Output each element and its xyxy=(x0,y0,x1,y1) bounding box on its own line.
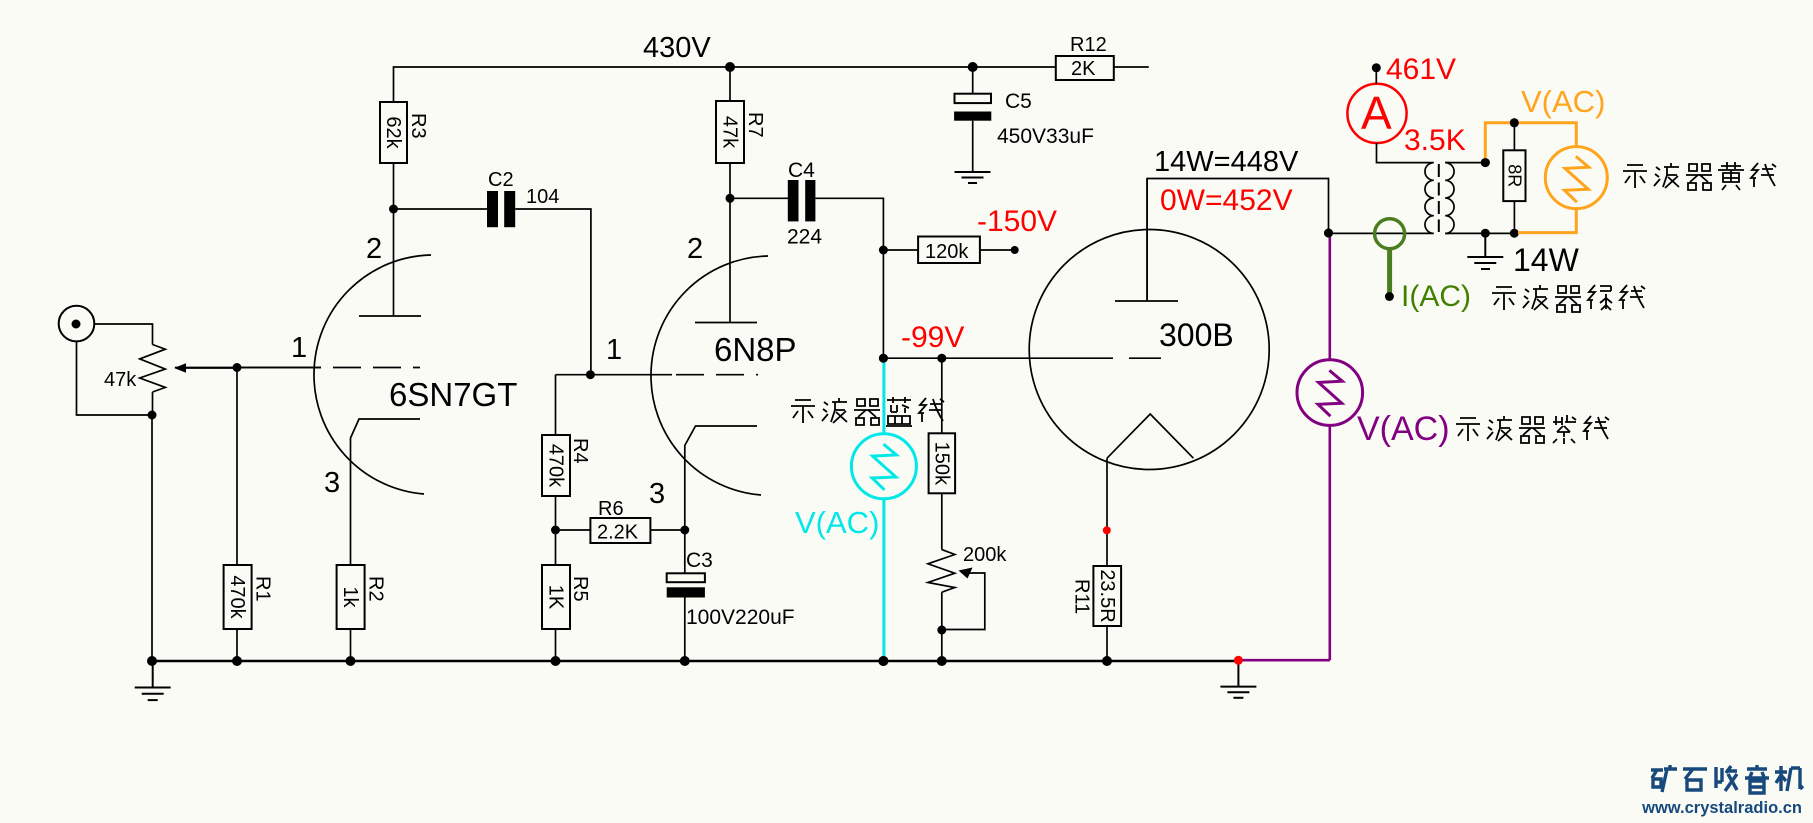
wire R7 bottom to plate node 6N8P xyxy=(729,163,731,198)
node rail cyan (over) xyxy=(878,656,888,666)
wire terminal to ammeter xyxy=(1375,68,1377,84)
node rail R2 xyxy=(346,656,356,666)
wire orange loop top xyxy=(1485,123,1576,163)
potentiometer 200k xyxy=(928,544,1007,592)
node red cathode xyxy=(1103,526,1111,534)
svg-text:V(AC): V(AC) xyxy=(795,505,879,540)
node R4 R5 R6 xyxy=(551,526,560,535)
svg-text:200k: 200k xyxy=(963,544,1007,566)
wire pot bottom to node xyxy=(152,392,154,415)
node -150V terminal xyxy=(1011,246,1019,254)
node -99V cyan tap xyxy=(879,354,888,363)
oscilloscope purple circle xyxy=(1297,360,1363,426)
wire node to C4 xyxy=(730,197,788,199)
node rail right end red xyxy=(1234,656,1243,665)
wire rail to R12 right xyxy=(1114,66,1149,68)
wire R1 to rail xyxy=(236,629,238,661)
wire purple to rail xyxy=(1238,659,1329,662)
svg-text:1k: 1k xyxy=(339,586,361,608)
6N8P plate xyxy=(695,198,757,322)
svg-text:1: 1 xyxy=(606,334,622,366)
svg-text:62k: 62k xyxy=(382,116,404,149)
svg-text:R5: R5 xyxy=(569,576,591,602)
cyan oscilloscope branch xyxy=(851,358,916,661)
node grid junction R1 xyxy=(233,363,242,372)
node plate 6N8P xyxy=(726,194,735,203)
wire cyan top xyxy=(882,358,885,434)
svg-text:100V220uF: 100V220uF xyxy=(686,606,795,629)
wire node down to rail xyxy=(151,415,153,661)
wire cyan bottom xyxy=(882,499,885,661)
wire junction down to R1 xyxy=(236,368,238,566)
svg-text:14W=448V: 14W=448V xyxy=(1154,146,1299,178)
bottom rail xyxy=(152,660,1238,663)
ammeter A1 xyxy=(1347,84,1406,143)
label oscilloscope purple line chinese xyxy=(1456,415,1609,444)
capacitor C3 xyxy=(667,530,795,661)
wire R5 to rail xyxy=(555,629,557,661)
wire 120k to -150V terminal xyxy=(980,249,1015,251)
wire R6 left xyxy=(556,529,591,531)
oscilloscope yellow circle xyxy=(1545,147,1607,209)
300B grid dashes xyxy=(1129,357,1165,359)
transformer core xyxy=(1438,164,1440,232)
wire node to C2 xyxy=(394,208,488,210)
ground secondary xyxy=(1467,233,1503,269)
svg-text:430V: 430V xyxy=(643,32,711,64)
svg-text:-99V: -99V xyxy=(901,321,964,354)
wire R2 to rail xyxy=(350,629,352,661)
resistor R6 xyxy=(590,498,650,544)
node 461V terminal xyxy=(1372,63,1381,72)
wire secondary top xyxy=(1445,162,1485,164)
svg-text:23.5R: 23.5R xyxy=(1096,569,1118,622)
zigzag yellow xyxy=(1565,156,1589,202)
svg-text:2: 2 xyxy=(687,233,703,265)
capacitor C5 xyxy=(954,67,1094,172)
svg-text:I(AC): I(AC) xyxy=(1401,280,1471,313)
wire jack to pot top xyxy=(94,324,152,345)
resistor R5 xyxy=(542,530,591,629)
wire to 120k xyxy=(883,249,918,251)
resistor 150k xyxy=(929,358,956,493)
node transformer primary bottom xyxy=(1324,229,1333,238)
capacitor C2 xyxy=(487,169,559,227)
wire R6 right xyxy=(650,529,684,531)
resistor R1 xyxy=(224,565,274,629)
wire R4 to node xyxy=(555,496,557,530)
node rail 200k xyxy=(937,656,947,666)
wire ammeter to primary top xyxy=(1377,143,1428,163)
svg-text:A: A xyxy=(1361,87,1392,139)
svg-text:R1: R1 xyxy=(252,576,274,602)
wire secondary bottom xyxy=(1445,232,1518,234)
ground left xyxy=(135,661,171,700)
svg-text:C2: C2 xyxy=(488,169,514,191)
resistor R4 xyxy=(542,375,591,496)
svg-text:120k: 120k xyxy=(925,241,969,263)
resistor R7 xyxy=(716,67,766,163)
svg-text:R3: R3 xyxy=(407,113,429,139)
svg-text:C5: C5 xyxy=(1005,90,1032,113)
oscilloscope blue circle xyxy=(851,434,916,499)
svg-text:14W: 14W xyxy=(1513,242,1580,278)
node 430V junction C5 xyxy=(968,62,978,72)
svg-text:224: 224 xyxy=(787,226,822,249)
6N8P grid wire xyxy=(556,374,673,376)
node 150k tap xyxy=(937,354,946,363)
svg-text:470k: 470k xyxy=(226,575,248,619)
tube 300B envelope xyxy=(1029,230,1269,470)
svg-text:300B: 300B xyxy=(1159,317,1234,353)
resistor R12 xyxy=(1056,34,1114,80)
resistor R3 xyxy=(380,102,429,163)
svg-text:150k: 150k xyxy=(931,442,953,486)
node rail cyan xyxy=(878,656,888,666)
zigzag purple xyxy=(1318,370,1342,416)
6SN7 grid wire xyxy=(175,367,321,369)
node 8R top on orange wire xyxy=(1510,118,1519,127)
wire R11 to rail xyxy=(1106,626,1108,661)
svg-text:R4: R4 xyxy=(569,438,591,464)
node secondary top xyxy=(1481,158,1490,167)
wire 150k to pot xyxy=(941,493,943,549)
watermark crystalradio xyxy=(1651,765,1803,793)
wire 200k bottom to node xyxy=(941,592,943,630)
node plate 6SN7 xyxy=(389,205,398,214)
green current probe xyxy=(1375,219,1405,293)
node rail R1 xyxy=(232,656,242,666)
wire -99V to 300B grid xyxy=(883,357,1113,359)
svg-text:2.2K: 2.2K xyxy=(597,522,639,544)
svg-text:3.5K: 3.5K xyxy=(1404,124,1466,157)
svg-text:6SN7GT: 6SN7GT xyxy=(389,376,517,413)
wire C2 to 6N8P grid node xyxy=(515,209,591,375)
transformer T1 primary xyxy=(1425,163,1434,234)
node secondary bottom gnd xyxy=(1481,229,1490,238)
6N8P cathode xyxy=(685,426,757,530)
pot wiper arrow xyxy=(174,363,237,372)
300B filament xyxy=(1107,414,1193,458)
svg-text:V(AC): V(AC) xyxy=(1521,84,1605,119)
wire junction to tube grid xyxy=(237,367,321,369)
svg-text:450V33uF: 450V33uF xyxy=(997,125,1094,148)
svg-text:47k: 47k xyxy=(104,369,137,391)
svg-text:3: 3 xyxy=(649,478,665,510)
wire purple top xyxy=(1329,233,1332,360)
node wiper join xyxy=(937,626,946,635)
orange oscilloscope branch xyxy=(1485,123,1607,233)
wire purple bottom xyxy=(1329,425,1332,660)
300B plate xyxy=(1115,179,1178,302)
svg-text:R12: R12 xyxy=(1070,34,1107,56)
svg-text:R2: R2 xyxy=(365,576,387,602)
node -99V cyan tap (over) xyxy=(879,354,888,363)
node 6N8P grid xyxy=(586,370,595,379)
label oscilloscope blue line chinese xyxy=(791,397,944,426)
wire primary bottom xyxy=(1329,232,1428,234)
node green probe terminal xyxy=(1385,292,1394,301)
svg-text:8R: 8R xyxy=(1505,164,1525,187)
node 8R top (over) xyxy=(1510,118,1519,127)
ground right xyxy=(1220,661,1256,698)
svg-text:V(AC): V(AC) xyxy=(1357,410,1450,448)
tube 6N8P envelope arc xyxy=(651,256,768,495)
tube 6SN7 envelope arc xyxy=(314,255,431,494)
wire 300B cathode down xyxy=(1106,458,1108,566)
svg-text:C4: C4 xyxy=(788,159,815,182)
svg-text:www.crystalradio.cn: www.crystalradio.cn xyxy=(1641,799,1802,817)
200k wiper arrow xyxy=(943,568,985,630)
input jack xyxy=(59,306,95,342)
potentiometer 47k xyxy=(104,345,165,393)
svg-text:C3: C3 xyxy=(686,549,713,572)
wire node to rail xyxy=(941,630,943,661)
purple oscilloscope branch xyxy=(1238,233,1362,660)
svg-text:470k: 470k xyxy=(545,444,567,488)
wire 430V top rail xyxy=(394,67,1056,102)
node rail left end xyxy=(147,656,157,666)
node 430V junction R7 xyxy=(725,62,735,72)
wire R3 bottom to plate node xyxy=(393,163,395,209)
svg-text:104: 104 xyxy=(526,186,559,208)
node cathode C3 xyxy=(680,526,689,535)
svg-text:3: 3 xyxy=(324,467,340,499)
node 120k junction xyxy=(879,246,888,255)
zigzag blue xyxy=(872,444,896,490)
6SN7 plate xyxy=(359,209,421,316)
node 8R bottom xyxy=(1510,229,1519,238)
svg-text:1: 1 xyxy=(291,332,307,364)
node rail C3 xyxy=(680,656,690,666)
svg-text:R6: R6 xyxy=(598,498,624,520)
node transformer primary bottom (over) xyxy=(1324,229,1333,238)
label oscilloscope yellow line chinese xyxy=(1623,162,1776,190)
svg-text:-150V: -150V xyxy=(977,205,1057,238)
resistor R11 xyxy=(1071,566,1122,626)
svg-text:0W=452V: 0W=452V xyxy=(1160,184,1293,217)
svg-text:R7: R7 xyxy=(744,112,766,138)
svg-text:6N8P: 6N8P xyxy=(714,331,797,368)
node rail R5 xyxy=(551,656,561,666)
node rail R11 xyxy=(1102,656,1112,666)
wire C4 right down to -99V node xyxy=(815,198,883,358)
svg-text:47k: 47k xyxy=(719,116,741,149)
resistor 8R xyxy=(1503,123,1525,233)
svg-text:1K: 1K xyxy=(545,585,567,610)
resistor 120k xyxy=(918,237,980,264)
node secondary top (over) xyxy=(1481,158,1490,167)
capacitor C4 xyxy=(787,159,822,249)
transformer T1 secondary xyxy=(1445,163,1454,234)
wire jack bottom to pot bottom xyxy=(77,341,153,415)
svg-text:R11: R11 xyxy=(1071,579,1093,614)
resistor R2 xyxy=(337,565,387,629)
node pot bottom xyxy=(148,411,157,420)
bracket 0W=452V box xyxy=(1147,179,1328,302)
svg-text:2K: 2K xyxy=(1071,58,1096,80)
label oscilloscope green line chinese xyxy=(1492,285,1645,312)
ground C5 xyxy=(955,172,991,183)
svg-text:461V: 461V xyxy=(1386,53,1456,86)
svg-text:2: 2 xyxy=(366,233,382,265)
wire orange loop bottom xyxy=(1518,209,1576,233)
6SN7 cathode xyxy=(351,419,421,565)
